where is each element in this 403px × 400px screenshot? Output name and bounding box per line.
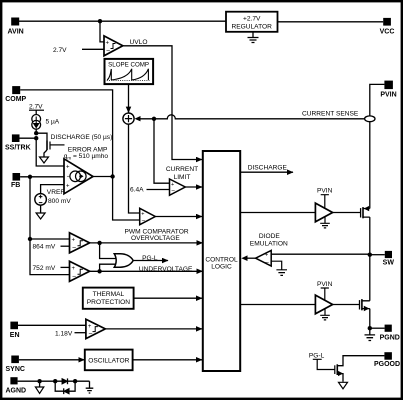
op-amp diode emulation comparator [256, 250, 272, 266]
wire error amp output to node [93, 176, 113, 178]
slope comp block [105, 59, 154, 84]
pin PGND [380, 325, 400, 342]
pin SYNC [6, 356, 25, 374]
pin SW [383, 251, 395, 267]
svg-text:DISCHARGE: DISCHARGE [248, 164, 288, 171]
wire OR output arrow [133, 260, 168, 262]
pin FB [11, 173, 20, 189]
svg-text:SS/TRK: SS/TRK [5, 145, 31, 152]
arrowhead into summer [135, 116, 141, 121]
node AVIN-UVLO junction [98, 19, 102, 23]
pin PVIN [380, 81, 396, 99]
wire EN to comparator [18, 324, 86, 326]
ground (low-side driver) [320, 309, 330, 320]
node diode pair left [53, 379, 57, 383]
svg-text:+: + [66, 183, 70, 189]
node SW junction [368, 253, 372, 257]
wire oscillator to control logic [133, 359, 202, 361]
svg-text:CURRENT: CURRENT [166, 166, 198, 173]
label PG-L (net) [309, 353, 335, 370]
wire junction down to UVLO + input [100, 21, 104, 42]
svg-text:UVLO: UVLO [130, 39, 148, 46]
thermal protection box [83, 288, 134, 309]
svg-text:SLOPE COMP: SLOPE COMP [108, 62, 149, 69]
svg-text:2.7V: 2.7V [53, 47, 67, 54]
svg-text:PVIN: PVIN [380, 92, 396, 99]
op-amp UVLO comparator [104, 36, 147, 56]
wire PVIN down to high-side FET [370, 84, 385, 208]
svg-text:PVIN: PVIN [317, 281, 333, 288]
svg-text:+: + [72, 238, 76, 244]
wire PWM comp to control logic [155, 216, 202, 218]
svg-text:AGND: AGND [6, 387, 27, 394]
wire SW line to diode emulation + input [271, 253, 370, 255]
svg-text:OVERVOLTAGE: OVERVOLTAGE [131, 235, 180, 242]
diode D1 (upper) [62, 378, 68, 384]
ground (PGOOD FET) [339, 382, 348, 389]
pin COMP [5, 86, 26, 103]
svg-text:VCC: VCC [380, 28, 395, 35]
svg-text:−: − [171, 188, 175, 195]
current sense element [365, 116, 375, 122]
wire 1.18V to - input [75, 332, 86, 334]
svg-text:CURRENT SENSE: CURRENT SENSE [302, 110, 359, 117]
op-amp undervoltage comparator [70, 261, 90, 281]
op-amp PWM comparator [140, 208, 156, 224]
node UV branch [97, 269, 101, 273]
gate OR (PG) [114, 254, 133, 267]
pin VCC [380, 18, 395, 36]
svg-text:+: + [66, 165, 70, 171]
svg-text:1.18V: 1.18V [55, 330, 73, 337]
node diode pair right [73, 379, 77, 383]
svg-text:gm = 510 µmho: gm = 510 µmho [64, 153, 109, 161]
transistor discharge FET [36, 133, 64, 156]
ground (discharge) [40, 157, 49, 163]
svg-text:6.4A: 6.4A [130, 187, 144, 194]
ground (PGND) [365, 328, 376, 340]
wire sense node down to current limit + input [154, 119, 169, 183]
node COMP/error-amp [110, 174, 114, 178]
svg-text:COMP: COMP [5, 96, 26, 103]
ground (VREF) [36, 213, 45, 219]
svg-text:−: − [106, 48, 110, 55]
svg-text:5 µA: 5 µA [46, 119, 60, 126]
wire DISCHARGE output [240, 171, 293, 173]
oscillator box [85, 350, 133, 371]
svg-text:EN: EN [10, 332, 20, 339]
svg-text:PGOOD: PGOOD [374, 361, 400, 368]
wire node down to PWM - input [113, 177, 140, 221]
svg-text:AVIN: AVIN [8, 29, 24, 36]
wire high-side FET source to SW node [369, 217, 371, 255]
wire SYNC to oscillator [19, 359, 85, 361]
wire UV output to control logic [90, 270, 203, 272]
svg-text:LOGIC: LOGIC [211, 263, 232, 270]
wire 2.7V to UVLO - input [82, 48, 104, 50]
svg-text:−: − [72, 274, 76, 281]
node AGND triangle-gnd branch [37, 379, 41, 383]
op-amp EN comparator [86, 319, 105, 338]
op-amp high-side gate driver [315, 203, 332, 222]
summing junction [123, 113, 134, 124]
wire control logic to low-side driver [240, 304, 315, 306]
wire COMP to error amp output node [20, 90, 112, 177]
wire SS node to error amp + input [36, 138, 64, 166]
svg-text:EMULATION: EMULATION [250, 240, 288, 247]
svg-text:PGND: PGND [380, 335, 400, 342]
voltage source VREF 800 mV [35, 185, 72, 213]
wire thermal to control logic [134, 297, 202, 299]
pin EN [10, 322, 20, 339]
wire SW node to low-side drain / source to PGND [369, 255, 371, 329]
transistor low-side FET [360, 299, 370, 311]
wire 864mV to OV - input [61, 245, 70, 247]
wire FB rail down to OV/UV [29, 177, 31, 239]
svg-text:−: − [72, 245, 76, 252]
wire 752mV to UV + input [61, 266, 70, 268]
svg-text:800 mV: 800 mV [48, 198, 71, 205]
node SS junction lower [34, 136, 38, 140]
diode D2 (lower, reversed) [55, 381, 75, 394]
svg-text:FB: FB [11, 182, 20, 189]
svg-text:SW: SW [383, 260, 395, 267]
label PVIN (high-side driver rail) [317, 188, 333, 209]
node OV branch [97, 241, 101, 245]
svg-text:PVIN: PVIN [317, 188, 333, 195]
wire OV branch to OR gate [100, 243, 118, 259]
op-amp low-side gate driver [315, 295, 332, 314]
wire current limit to control logic [185, 186, 202, 188]
pin AVIN [8, 18, 24, 36]
current source 5uA [32, 110, 60, 133]
wire AGND net [18, 380, 90, 382]
svg-text:864 mV: 864 mV [33, 244, 56, 251]
svg-text:PG-L: PG-L [309, 353, 325, 360]
wire PGND node to pin [370, 327, 385, 329]
wire OV output to control logic [90, 242, 203, 244]
svg-text:+: + [88, 324, 92, 330]
ground (high-side driver) [320, 217, 330, 228]
svg-text:THERMAL: THERMAL [93, 291, 125, 298]
wire regulator to VCC [278, 21, 384, 23]
op-amp current limit comparator [170, 179, 186, 195]
wire SW node to pin [370, 254, 385, 256]
ground (AGND triangle) [35, 387, 43, 393]
svg-text:−: − [88, 331, 92, 338]
svg-text:−: − [142, 218, 146, 225]
control logic box [203, 151, 240, 371]
node FB rail at OV [28, 237, 32, 241]
svg-text:+2.7V: +2.7V [243, 15, 261, 22]
transistor PGOOD FET [335, 356, 385, 382]
wire summer down to PWM + input [129, 124, 140, 213]
op-amp error amplifier [64, 159, 93, 194]
ground (AGND earth) [86, 381, 94, 393]
wire SS/TRK to node [20, 137, 37, 139]
svg-text:PROTECTION: PROTECTION [87, 299, 130, 306]
pin SS/TRK [5, 134, 31, 151]
svg-text:UNDERVOLTAGE: UNDERVOLTAGE [139, 266, 193, 273]
wire UV branch to OR gate [100, 264, 118, 271]
wire EN comp to control logic [105, 328, 202, 330]
ground (regulator) [248, 32, 259, 43]
wire 6.4A to - input [147, 189, 170, 191]
svg-text:SYNC: SYNC [6, 366, 25, 373]
+2.7V regulator box [226, 12, 278, 32]
op-amp overvoltage comparator [70, 233, 90, 253]
node PGND junction [368, 326, 372, 330]
svg-text:LIMIT: LIMIT [174, 174, 191, 181]
svg-text:752 mV: 752 mV [33, 265, 56, 272]
node SS junction upper [34, 131, 38, 135]
svg-text:+: + [72, 266, 76, 272]
svg-text:+: + [265, 253, 268, 259]
wire slope comp to summer [128, 84, 130, 112]
label 2.7V rail [29, 104, 44, 111]
wire FB rail down to UV - input [30, 239, 70, 275]
svg-text:REGULATOR: REGULATOR [231, 23, 272, 30]
svg-text:DISCHARGE (50 µs): DISCHARGE (50 µs) [51, 134, 113, 141]
svg-text:OSCILLATOR: OSCILLATOR [88, 357, 129, 364]
transistor high-side FET [361, 206, 370, 218]
svg-text:+: + [106, 41, 110, 47]
wire FB to error amp - input [20, 176, 64, 178]
svg-text:VREF: VREF [47, 189, 65, 196]
svg-text:−: − [265, 259, 269, 266]
node FB rail junction [28, 175, 32, 179]
wire diode emulation output to control logic [247, 257, 256, 259]
wire driver to high-side gate [333, 212, 361, 214]
svg-text:DIODE: DIODE [259, 233, 280, 240]
svg-text:+: + [141, 212, 144, 218]
wire FB rail to OV + input [30, 238, 70, 240]
wire diode emulation - input to ground [271, 261, 287, 275]
wire current sense to summer (with hop) [140, 115, 364, 119]
pin PGOOD [374, 352, 400, 368]
wire UVLO output to control logic [123, 46, 202, 160]
wire AVIN to regulator [19, 20, 226, 22]
node current sense branch [152, 117, 156, 121]
wire control logic to high-side driver [240, 212, 315, 214]
wire driver to low-side gate [333, 304, 360, 306]
pin AGND [6, 377, 27, 394]
label PVIN (low-side driver rail) [317, 281, 333, 301]
